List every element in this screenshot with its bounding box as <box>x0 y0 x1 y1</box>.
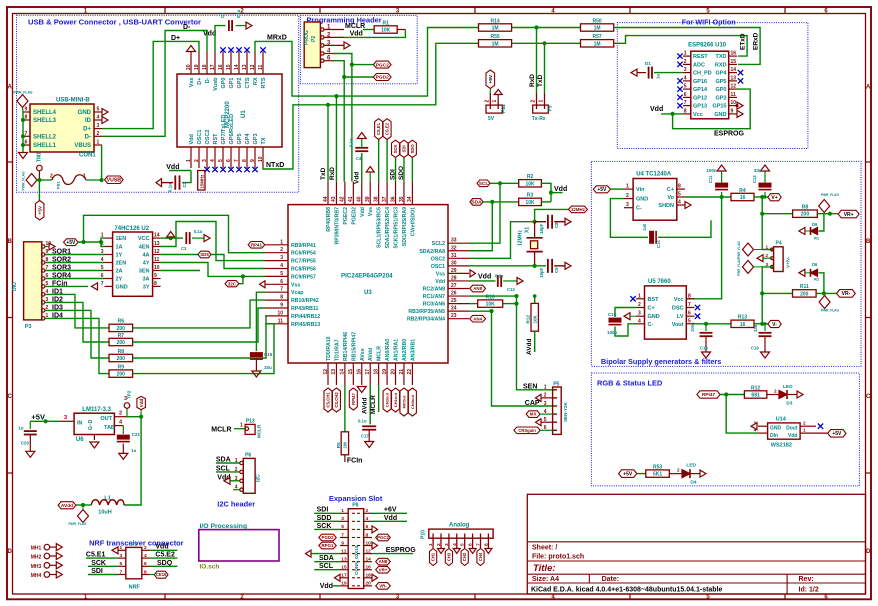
svg-text:ID: ID <box>85 118 92 124</box>
svg-text:16: 16 <box>366 565 372 571</box>
svg-text:14: 14 <box>731 67 737 73</box>
svg-text:10: 10 <box>154 265 160 271</box>
svg-text:SCL1/RPI53/RC5: SCL1/RPI53/RC5 <box>377 207 383 248</box>
svg-text:CS,E2: CS,E2 <box>385 122 390 135</box>
svg-text:41: 41 <box>348 196 354 202</box>
svg-text:16: 16 <box>740 322 746 328</box>
svg-text:PIC24EP64GP204: PIC24EP64GP204 <box>341 273 393 280</box>
svg-text:GP0: GP0 <box>715 87 726 93</box>
svg-text:16: 16 <box>740 195 746 201</box>
svg-text:1M: 1M <box>492 26 499 32</box>
svg-text:TxD: TxD <box>537 74 544 87</box>
svg-text:8: 8 <box>144 569 147 575</box>
svg-text:7: 7 <box>280 287 283 293</box>
svg-text:1: 1 <box>240 423 243 429</box>
svg-text:G~D: G~D <box>88 419 94 430</box>
svg-text:GP4: GP4 <box>245 133 251 145</box>
svg-text:CE15: CE15 <box>156 572 167 577</box>
svg-text:12: 12 <box>323 369 329 375</box>
svg-text:I2C header: I2C header <box>217 500 255 509</box>
svg-text:CVref/SDO1: CVref/SDO1 <box>410 207 416 236</box>
svg-text:RX: RX <box>253 77 259 85</box>
svg-text:8: 8 <box>280 295 283 301</box>
svg-text:SDI: SDI <box>390 169 397 180</box>
svg-text:GND: GND <box>116 284 128 290</box>
svg-text:19: 19 <box>341 581 347 587</box>
svg-text:R14: R14 <box>490 18 499 24</box>
svg-text:U5 7660: U5 7660 <box>648 279 671 285</box>
svg-text:1M: 1M <box>594 41 601 47</box>
svg-text:CH3: CH3 <box>446 552 451 561</box>
svg-text:OSC2: OSC2 <box>205 130 211 145</box>
svg-text:P3: P3 <box>25 324 32 330</box>
svg-text:CH3out: CH3out <box>385 392 390 407</box>
svg-text:D1: D1 <box>645 61 651 66</box>
svg-text:NTxD: NTxD <box>266 162 284 169</box>
svg-text:5: 5 <box>684 84 687 90</box>
svg-text:20: 20 <box>366 581 372 587</box>
svg-text:BST: BST <box>648 297 660 303</box>
svg-text:AN8: AN8 <box>379 559 388 564</box>
svg-text:17: 17 <box>341 573 347 579</box>
svg-text:10K: 10K <box>525 200 535 206</box>
svg-text:4Y: 4Y <box>143 261 150 267</box>
svg-text:74HC126 U2: 74HC126 U2 <box>114 226 149 232</box>
svg-text:16: 16 <box>357 369 363 375</box>
svg-text:PGED2: PGED2 <box>351 207 357 225</box>
svg-text:9: 9 <box>280 303 283 309</box>
svg-text:V+: V+ <box>771 195 777 201</box>
svg-text:R12: R12 <box>526 315 531 324</box>
svg-text:Vcc: Vcc <box>693 112 703 118</box>
svg-text:12: 12 <box>366 548 372 554</box>
svg-text:VCC: VCC <box>138 236 150 242</box>
svg-text:GND: GND <box>770 426 782 432</box>
svg-text:C: C <box>866 394 871 400</box>
svg-text:7: 7 <box>688 302 691 308</box>
svg-text:1: 1 <box>428 543 434 546</box>
svg-text:6: 6 <box>101 273 104 279</box>
svg-text:4: 4 <box>452 543 458 546</box>
svg-text:9: 9 <box>341 540 344 546</box>
svg-text:SHELL4: SHELL4 <box>33 110 57 116</box>
svg-text:6: 6 <box>366 524 369 530</box>
svg-text:AVdd: AVdd <box>368 348 374 361</box>
svg-text:CH4out: CH4out <box>410 394 415 409</box>
svg-text:Bipolar Supply generators & fi: Bipolar Supply generators & filters <box>601 357 721 366</box>
svg-text:3: 3 <box>444 543 450 546</box>
svg-text:Date:: Date: <box>602 576 620 583</box>
svg-text:3: 3 <box>101 249 104 255</box>
svg-text:7: 7 <box>476 543 482 546</box>
svg-text:R8: R8 <box>802 205 809 211</box>
svg-text:PWR_FLAG: PWR_FLAG <box>69 522 87 526</box>
svg-text:33: 33 <box>451 238 457 244</box>
svg-text:C9: C9 <box>554 267 559 273</box>
svg-text:GP2: GP2 <box>715 95 726 101</box>
svg-text:RxD: RxD <box>329 167 336 180</box>
svg-text:X1: X1 <box>525 227 531 233</box>
svg-text:15MHz: 15MHz <box>200 174 205 189</box>
svg-text:PWR_FLAG: PWR_FLAG <box>737 241 741 259</box>
svg-text:RxD: RxD <box>529 74 536 87</box>
svg-text:R3: R3 <box>527 193 534 199</box>
svg-text:1: 1 <box>544 385 547 391</box>
svg-text:C11: C11 <box>708 175 713 183</box>
svg-text:R13: R13 <box>738 315 747 321</box>
svg-text:10K: 10K <box>525 181 535 187</box>
svg-text:10K: 10K <box>532 314 537 323</box>
svg-text:9: 9 <box>250 159 256 162</box>
svg-text:U14: U14 <box>776 417 787 423</box>
svg-text:1u: 1u <box>131 448 137 453</box>
svg-text:TX: TX <box>261 137 267 144</box>
svg-text:1M: 1M <box>342 442 347 449</box>
svg-text:13: 13 <box>154 241 160 247</box>
svg-text:37: 37 <box>382 196 388 202</box>
svg-text:P7: P7 <box>131 542 137 548</box>
svg-text:2: 2 <box>50 174 53 180</box>
svg-text:R9: R9 <box>118 364 125 370</box>
svg-text:NRF: NRF <box>129 585 141 591</box>
svg-text:6: 6 <box>688 311 691 317</box>
svg-text:15: 15 <box>226 64 232 70</box>
svg-text:LED: LED <box>686 463 696 469</box>
svg-text:CH_PD: CH_PD <box>693 71 712 77</box>
svg-text:5: 5 <box>678 192 681 198</box>
svg-text:R53: R53 <box>653 464 662 470</box>
svg-text:RP39/INT0/RB7: RP39/INT0/RB7 <box>334 207 340 245</box>
svg-text:SHDN: SHDN <box>658 203 674 209</box>
svg-text:10uH: 10uH <box>98 510 111 516</box>
svg-text:3: 3 <box>64 415 67 421</box>
svg-text:10: 10 <box>366 540 372 546</box>
svg-text:8: 8 <box>688 293 691 299</box>
svg-text:11: 11 <box>731 92 737 98</box>
svg-text:CON1: CON1 <box>79 153 96 159</box>
svg-text:1: 1 <box>626 184 629 190</box>
svg-text:13: 13 <box>341 556 347 562</box>
svg-text:32C: 32C <box>228 281 237 286</box>
svg-text:+5V: +5V <box>488 74 494 83</box>
svg-text:Vout: Vout <box>672 322 684 328</box>
svg-text:VR+: VR+ <box>379 567 388 572</box>
svg-text:40: 40 <box>357 196 363 202</box>
svg-text:6: 6 <box>280 279 283 285</box>
svg-text:GND: GND <box>714 112 726 118</box>
svg-text:RB9/RP41: RB9/RP41 <box>291 243 316 249</box>
svg-text:AN8: AN8 <box>473 286 482 291</box>
svg-text:P2: P2 <box>311 36 317 42</box>
svg-text:U3: U3 <box>364 290 372 296</box>
svg-text:RC6/RP54: RC6/RP54 <box>291 251 316 257</box>
svg-text:34: 34 <box>407 196 413 202</box>
svg-text:8: 8 <box>242 159 248 162</box>
svg-text:2: 2 <box>626 193 629 199</box>
svg-text:27: 27 <box>451 283 457 289</box>
svg-text:PGD2: PGD2 <box>376 75 389 81</box>
svg-text:100n: 100n <box>690 322 695 332</box>
svg-text:4: 4 <box>280 263 283 269</box>
svg-text:MCLR: MCLR <box>257 424 262 438</box>
svg-text:1: 1 <box>83 174 86 180</box>
svg-text:5: 5 <box>101 265 104 271</box>
svg-text:12MHz: 12MHz <box>518 230 524 246</box>
svg-text:Vss: Vss <box>368 207 374 216</box>
svg-text:SEN-Y2K: SEN-Y2K <box>563 401 568 422</box>
svg-text:TD0/RA10: TD0/RA10 <box>326 336 332 361</box>
svg-text:1EN: 1EN <box>116 236 127 242</box>
svg-text:CH4: CH4 <box>478 552 483 561</box>
svg-text:SEN: SEN <box>523 384 537 391</box>
svg-text:SD5: SD5 <box>200 252 209 257</box>
svg-text:FCIn: FCIn <box>347 458 363 465</box>
svg-text:3Y: 3Y <box>143 284 150 290</box>
svg-text:4: 4 <box>101 257 104 263</box>
svg-text:AVss: AVss <box>360 348 366 361</box>
svg-text:4: 4 <box>144 553 147 559</box>
svg-text:681: 681 <box>751 393 760 399</box>
svg-text:2: 2 <box>366 508 369 514</box>
svg-text:MH4: MH4 <box>31 573 42 579</box>
svg-text:Tx-Rx: Tx-Rx <box>532 116 546 122</box>
svg-text:AVdd: AVdd <box>526 338 533 355</box>
svg-text:19: 19 <box>194 64 200 70</box>
svg-text:3: 3 <box>202 159 208 162</box>
svg-text:7: 7 <box>234 159 240 162</box>
svg-text:1: 1 <box>803 428 806 433</box>
svg-text:7: 7 <box>341 532 344 538</box>
svg-text:VR-: VR- <box>379 583 387 588</box>
svg-text:CRSgain: CRSgain <box>518 428 536 433</box>
svg-text:R12: R12 <box>751 385 760 391</box>
svg-text:VR-: VR- <box>842 291 851 297</box>
svg-text:10K: 10K <box>486 302 496 308</box>
svg-text:RTS: RTS <box>261 77 267 88</box>
svg-text:RC0/AN6: RC0/AN6 <box>423 302 445 308</box>
svg-text:D9: D9 <box>812 222 818 227</box>
svg-text:R11: R11 <box>800 284 809 290</box>
svg-text:11: 11 <box>154 257 160 263</box>
svg-text:0.1u: 0.1u <box>349 138 354 147</box>
svg-text:200: 200 <box>801 212 810 218</box>
svg-text:D: D <box>866 549 871 555</box>
svg-text:Analog: Analog <box>449 523 470 529</box>
svg-text:GP3: GP3 <box>253 133 259 144</box>
svg-text:28: 28 <box>451 275 457 281</box>
svg-text:25: 25 <box>451 298 457 304</box>
svg-text:Vdd: Vdd <box>203 31 216 38</box>
svg-text:Vdd: Vdd <box>320 583 333 590</box>
svg-text:20: 20 <box>186 64 192 70</box>
svg-text:ESPROG: ESPROG <box>714 130 745 137</box>
svg-text:CH1out: CH1out <box>393 392 398 407</box>
svg-text:GND: GND <box>648 314 660 320</box>
svg-text:15: 15 <box>731 59 737 65</box>
svg-text:IO.sch: IO.sch <box>200 564 220 571</box>
svg-text:RC2/AN8: RC2/AN8 <box>423 287 445 293</box>
svg-text:Sheet: /: Sheet: / <box>532 545 557 552</box>
svg-text:SCL: SCL <box>479 181 489 187</box>
svg-text:RP40/RB8: RP40/RB8 <box>326 207 332 232</box>
svg-text:1: 1 <box>492 100 498 103</box>
svg-text:5: 5 <box>97 107 100 113</box>
svg-text:Vdd: Vdd <box>650 106 663 113</box>
svg-text:3: 3 <box>341 516 344 522</box>
svg-text:14: 14 <box>154 233 160 239</box>
svg-text:C+: C+ <box>648 306 655 312</box>
svg-text:SCK: SCK <box>393 144 398 153</box>
svg-text:R10: R10 <box>486 294 495 300</box>
svg-text:4EN: 4EN <box>139 245 150 251</box>
svg-text:KiCad E.D.A. kicad 4.0.4+e1-6: KiCad E.D.A. kicad 4.0.4+e1-6308~48ubunt… <box>531 587 723 594</box>
svg-text:3: 3 <box>626 202 629 208</box>
svg-text:U4 TC1240A: U4 TC1240A <box>636 172 672 178</box>
svg-text:GP12: GP12 <box>693 95 707 101</box>
svg-text:SDI: SDI <box>401 145 406 152</box>
svg-text:1M: 1M <box>492 41 499 47</box>
svg-text:RB15/RPI47: RB15/RPI47 <box>351 332 357 361</box>
svg-text:2: 2 <box>803 421 806 426</box>
svg-text:+5V: +5V <box>623 471 633 477</box>
svg-text:Size: A4: Size: A4 <box>532 576 559 583</box>
svg-text:14: 14 <box>234 64 240 70</box>
svg-text:C15: C15 <box>264 352 273 357</box>
svg-text:P9: P9 <box>548 105 554 111</box>
svg-text:9: 9 <box>731 108 734 114</box>
svg-text:38: 38 <box>373 196 379 202</box>
svg-text:VBUS: VBUS <box>74 143 91 149</box>
svg-text:SDA1/RPI52/RC4: SDA1/RPI52/RC4 <box>385 207 391 249</box>
svg-text:C+: C+ <box>667 187 674 193</box>
svg-text:8: 8 <box>678 184 681 190</box>
svg-text:WS2182: WS2182 <box>771 443 792 449</box>
svg-text:SDO: SDO <box>398 166 405 180</box>
svg-text:R4: R4 <box>739 188 746 194</box>
svg-text:Dout: Dout <box>786 426 798 432</box>
svg-text:MCLR: MCLR <box>377 346 383 361</box>
svg-text:1: 1 <box>765 245 768 250</box>
svg-text:1: 1 <box>684 51 687 57</box>
svg-text:RC9/RP57: RC9/RP57 <box>291 274 316 280</box>
svg-text:2Y: 2Y <box>116 277 123 283</box>
svg-text:U1: U1 <box>241 110 247 118</box>
svg-text:3A: 3A <box>142 277 149 283</box>
svg-text:26: 26 <box>451 291 457 297</box>
svg-text:ADC: ADC <box>693 62 705 68</box>
svg-text:18: 18 <box>202 64 208 70</box>
svg-text:Vss: Vss <box>189 78 195 88</box>
svg-text:OUT: OUT <box>100 416 112 422</box>
svg-text:For WIFI Option: For WIFI Option <box>682 18 736 27</box>
svg-text:CS,CH2: CS,CH2 <box>334 392 339 408</box>
svg-text:C17: C17 <box>361 434 369 439</box>
svg-text:2: 2 <box>677 468 680 473</box>
svg-text:4: 4 <box>97 115 100 121</box>
svg-text:18: 18 <box>366 573 372 579</box>
svg-text:4: 4 <box>210 159 216 162</box>
svg-text:6: 6 <box>226 159 232 162</box>
svg-text:2: 2 <box>684 59 687 65</box>
svg-text:12: 12 <box>250 64 256 70</box>
svg-text:Vss: Vss <box>436 271 445 277</box>
svg-text:AN4: AN4 <box>473 316 482 321</box>
svg-text:18: 18 <box>373 369 379 375</box>
svg-text:1u: 1u <box>656 74 661 79</box>
svg-text:8: 8 <box>483 543 489 546</box>
svg-text:AN2/RB0: AN2/RB0 <box>402 339 408 361</box>
svg-text:0.1u: 0.1u <box>495 274 504 279</box>
svg-text:V-: V- <box>772 322 777 328</box>
svg-text:TD1/RA7: TD1/RA7 <box>334 339 340 361</box>
svg-text:C3: C3 <box>181 246 187 251</box>
svg-text:1: 1 <box>120 545 123 551</box>
svg-text:R2: R2 <box>527 174 534 180</box>
svg-text:A: A <box>8 85 13 91</box>
svg-text:AVdd: AVdd <box>361 397 368 414</box>
svg-text:+5V: +5V <box>31 413 45 422</box>
svg-text:SHELL1: SHELL1 <box>33 143 57 149</box>
svg-text:7: 7 <box>684 100 687 106</box>
svg-text:2: 2 <box>97 131 100 137</box>
svg-text:A: A <box>866 85 871 91</box>
svg-text:100u: 100u <box>607 330 618 335</box>
svg-text:1: 1 <box>280 239 283 245</box>
svg-text:3: 3 <box>684 67 687 73</box>
svg-text:C12: C12 <box>752 175 757 183</box>
svg-text:R1: R1 <box>814 236 820 241</box>
svg-text:D6: D6 <box>812 262 818 267</box>
svg-text:FB1: FB1 <box>56 181 61 189</box>
svg-text:C-: C- <box>636 206 642 212</box>
svg-text:7: 7 <box>120 569 123 575</box>
svg-text:4: 4 <box>684 75 687 81</box>
svg-text:SCK1/RPI51/RC3: SCK1/RPI51/RC3 <box>394 207 400 249</box>
svg-text:CONN_02X10: CONN_02X10 <box>354 545 359 575</box>
svg-text:21: 21 <box>399 369 405 375</box>
svg-text:RB14/RPI46: RB14/RPI46 <box>343 332 349 361</box>
svg-text:VR+: VR+ <box>844 212 854 218</box>
svg-text:C16: C16 <box>608 312 617 317</box>
svg-text:D-: D- <box>205 77 211 83</box>
svg-text:GND: GND <box>636 197 648 203</box>
svg-text:0.1u: 0.1u <box>358 419 367 424</box>
svg-text:R6: R6 <box>118 319 125 325</box>
svg-text:1Y: 1Y <box>116 253 123 259</box>
svg-text:CTS: CTS <box>245 77 251 88</box>
svg-text:PWR_FLAG: PWR_FLAG <box>821 193 839 197</box>
svg-text:0.1u: 0.1u <box>236 9 241 18</box>
svg-text:33u: 33u <box>754 168 762 173</box>
svg-text:Vdd: Vdd <box>435 279 445 285</box>
svg-text:PWR_FLAG: PWR_FLAG <box>22 171 26 190</box>
svg-text:1: 1 <box>341 508 344 514</box>
svg-text:5: 5 <box>280 271 283 277</box>
svg-text:2: 2 <box>774 389 777 394</box>
svg-text:GP5: GP5 <box>715 79 726 85</box>
svg-text:CS,E1: CS,E1 <box>376 122 381 135</box>
svg-text:MCLR: MCLR <box>370 395 377 414</box>
svg-text:Vdd: Vdd <box>478 274 491 281</box>
svg-text:3: 3 <box>765 262 768 267</box>
svg-text:C4: C4 <box>356 156 362 161</box>
svg-text:D+: D+ <box>197 78 203 85</box>
svg-text:File: proto1.sch: File: proto1.sch <box>532 554 584 561</box>
svg-text:C18: C18 <box>700 346 708 351</box>
svg-text:RPI44/RB12: RPI44/RB12 <box>291 314 320 320</box>
svg-text:CS,CH1: CS,CH1 <box>326 392 331 408</box>
svg-text:22: 22 <box>407 369 413 375</box>
